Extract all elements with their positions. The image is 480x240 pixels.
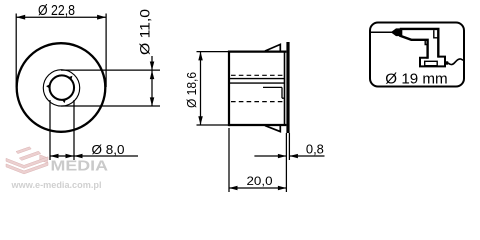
svg-text:Ø 8,0: Ø 8,0: [92, 142, 125, 157]
svg-text:0,8: 0,8: [306, 142, 324, 156]
svg-text:Ø 18,6: Ø 18,6: [184, 72, 199, 108]
svg-text:MEDIA: MEDIA: [51, 157, 109, 174]
svg-text:Ø 22,8: Ø 22,8: [38, 3, 75, 19]
svg-text:Ø 11,0: Ø 11,0: [136, 9, 152, 55]
svg-text:Ø 19 mm: Ø 19 mm: [385, 70, 447, 87]
svg-text:www.e-media.com.pl: www.e-media.com.pl: [11, 180, 102, 191]
svg-text:20,0: 20,0: [247, 174, 273, 188]
